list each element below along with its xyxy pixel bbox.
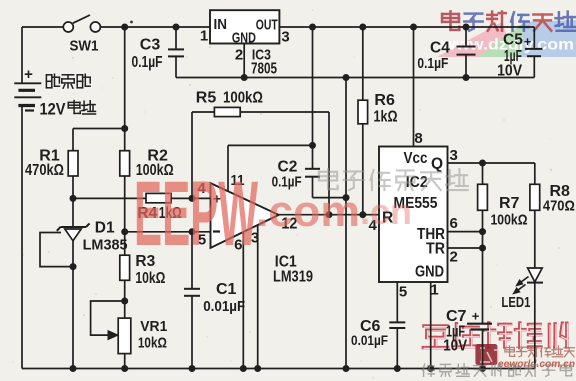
svg-text:C4: C4 [430, 40, 450, 57]
svg-text:R5: R5 [196, 89, 217, 106]
svg-text:10kΩ: 10kΩ [138, 335, 167, 352]
svg-text:1: 1 [430, 282, 438, 299]
svg-text:5: 5 [399, 284, 407, 301]
svg-text:C5: C5 [503, 32, 523, 49]
svg-text:C3: C3 [140, 37, 161, 54]
svg-text:Q: Q [431, 156, 443, 173]
svg-text:.cn: .cn [360, 191, 412, 232]
svg-text:LM319: LM319 [273, 268, 313, 285]
svg-text:LED1: LED1 [501, 294, 530, 311]
svg-text:+: + [24, 66, 33, 83]
svg-text:.com: .com [256, 187, 360, 236]
svg-text:C7: C7 [446, 308, 467, 325]
svg-text:GND: GND [232, 30, 256, 47]
svg-text:0.1µF: 0.1µF [417, 55, 448, 72]
svg-text:6: 6 [450, 215, 458, 232]
svg-text:10kΩ: 10kΩ [135, 270, 165, 287]
svg-text:2: 2 [235, 47, 243, 64]
svg-text:Vcc: Vcc [404, 150, 428, 167]
svg-text:R7: R7 [499, 195, 520, 212]
svg-text:+: + [472, 309, 480, 324]
svg-text:OUT: OUT [256, 17, 278, 34]
svg-text:7805: 7805 [251, 61, 277, 78]
svg-text:10V: 10V [443, 337, 468, 354]
svg-text:100kΩ: 100kΩ [223, 89, 263, 106]
svg-text:3: 3 [281, 29, 289, 46]
svg-text:1kΩ: 1kΩ [374, 108, 398, 125]
svg-text:GND: GND [415, 264, 444, 281]
svg-text:C1: C1 [216, 281, 237, 298]
svg-text:10V: 10V [497, 63, 523, 80]
svg-text:D1: D1 [95, 219, 115, 236]
svg-text:470kΩ: 470kΩ [25, 162, 64, 179]
svg-text:SW1: SW1 [70, 38, 99, 55]
svg-text:2: 2 [450, 249, 458, 266]
svg-text:+: + [524, 34, 532, 49]
svg-text:EEPW: EEPW [134, 163, 258, 265]
svg-text:100kΩ: 100kΩ [491, 212, 528, 229]
svg-text:0.1µF: 0.1µF [132, 54, 163, 71]
svg-text:12V: 12V [40, 101, 66, 119]
svg-text:3: 3 [450, 147, 458, 164]
svg-text:1: 1 [200, 28, 208, 45]
svg-text:0.01µF: 0.01µF [203, 298, 245, 315]
svg-text:0.01µF: 0.01µF [351, 333, 388, 348]
svg-text:IN: IN [214, 16, 228, 33]
svg-text:470Ω: 470Ω [543, 198, 575, 215]
svg-text:R6: R6 [374, 92, 395, 109]
svg-text:TR: TR [426, 240, 445, 257]
svg-text:VR1: VR1 [140, 318, 167, 335]
svg-text:8: 8 [414, 130, 422, 147]
svg-text:LM385: LM385 [83, 237, 128, 254]
